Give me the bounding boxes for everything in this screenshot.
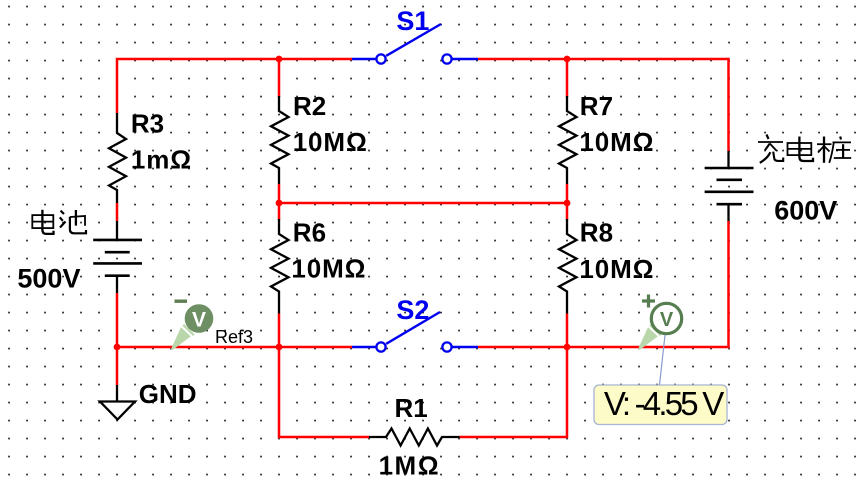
junction node: top rail / R2: [276, 56, 283, 63]
junction node: middle rail / R7-R8: [564, 200, 571, 207]
svg-text:R6: R6: [293, 217, 326, 247]
voltmeter probe + (right, outline): [638, 295, 682, 350]
电: [42, 210, 53, 234]
wire top rail left segment (node battery+ to S1): [117, 59, 352, 113]
svg-text:500V: 500V: [17, 264, 80, 294]
junction node: top rail / R7: [564, 56, 571, 63]
wire R2 column stubs: [278, 58, 281, 97]
wire R6 column stubs: [278, 202, 281, 220]
svg-text:600V: 600V: [774, 195, 837, 225]
junction node: bottom rail / battery-GND: [114, 344, 121, 351]
svg-text:Ref3: Ref3: [215, 327, 253, 347]
svg-text:10MΩ: 10MΩ: [291, 254, 366, 284]
label 电池 (hand-drawn glyphs): [32, 210, 86, 234]
svg-text:R3: R3: [131, 109, 164, 139]
wire bottom rail left segment: [117, 293, 352, 385]
wire R1 branch left drop: [279, 347, 369, 437]
resistor R7 10MΩ: [559, 91, 654, 184]
ground GND: [100, 379, 197, 420]
svg-text:V: V: [192, 309, 206, 332]
switch S2: [352, 295, 478, 352]
label 充电桩 (hand-drawn glyphs): [758, 135, 851, 163]
svg-text:10MΩ: 10MΩ: [579, 254, 654, 284]
svg-text:1MΩ: 1MΩ: [379, 451, 440, 481]
wire left column between R3 and battery: [116, 203, 119, 221]
resistor R8 10MΩ: [559, 217, 654, 313]
svg-text:S2: S2: [396, 295, 429, 325]
battery V1 电池 500V (left): [17, 221, 142, 294]
junction node: bottom rail / R6-R1 branch: [276, 344, 283, 351]
resistor R6 10MΩ: [271, 217, 366, 313]
switch S1: [352, 6, 478, 64]
svg-text:10MΩ: 10MΩ: [579, 127, 654, 157]
voltmeter probe Ref3 (negative, filled): [171, 300, 253, 350]
wire R7 column stubs: [566, 58, 569, 97]
resistor R1 1MΩ (horizontal): [369, 393, 460, 481]
svg-text:S1: S1: [396, 6, 429, 36]
桩: [823, 137, 825, 163]
svg-text:GND: GND: [139, 379, 197, 409]
wire right column upper (into charger battery): [727, 58, 730, 151]
wire right column lower (charger- to bottom rail): [478, 221, 729, 347]
battery V2 充电桩 600V (right, charger): [705, 151, 838, 225]
svg-text:10MΩ: 10MΩ: [293, 127, 368, 157]
junction node: middle rail / R2-R6: [276, 200, 283, 207]
wire R8 column stubs: [566, 202, 569, 220]
svg-text:R7: R7: [580, 91, 613, 121]
wire R1 branch right drop: [460, 347, 568, 437]
junction node: bottom rail / R8-R1 branch: [564, 344, 571, 351]
充: [767, 135, 769, 140]
svg-text:V: -4.55 V: V: -4.55 V: [604, 385, 724, 422]
resistor R3 1mΩ: [109, 109, 192, 203]
svg-text:V: V: [660, 309, 674, 331]
wire top rail right segment (S1 to charger+): [478, 58, 729, 61]
svg-text:R8: R8: [580, 217, 613, 247]
measurement tooltip V: -4.55 V: [594, 335, 727, 425]
svg-text:R2: R2: [293, 91, 326, 121]
svg-text:R1: R1: [395, 393, 428, 423]
池: [61, 211, 64, 214]
svg-text:1mΩ: 1mΩ: [131, 144, 192, 174]
wire middle rail (node B between R2/R6 and R7/R8): [279, 202, 567, 205]
电: [799, 137, 813, 162]
resistor R2 10MΩ: [271, 91, 368, 184]
